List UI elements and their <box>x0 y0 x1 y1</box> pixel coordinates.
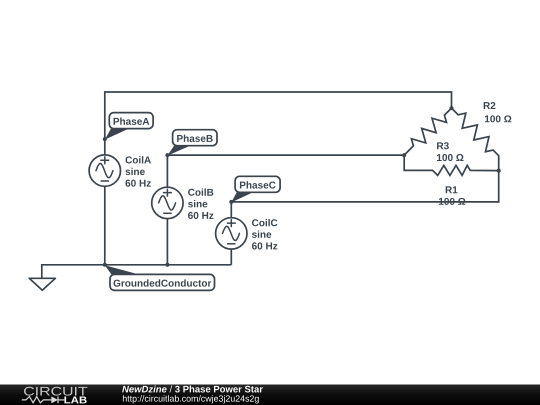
ground symbol <box>29 278 55 290</box>
net flag PhaseB box <box>173 130 217 146</box>
node PhaseC junction <box>229 200 233 204</box>
node neutral/ground junction <box>103 263 107 267</box>
net flag PhaseB text <box>177 135 213 142</box>
value label CoilC "sine 60 Hz" <box>252 219 277 250</box>
resistor R1 (bottom of delta) <box>404 155 499 175</box>
net flag PhaseA text <box>114 118 150 125</box>
node delta left junction <box>402 153 406 157</box>
net flag GroundedConductor text <box>114 279 212 286</box>
node CoilB-neutral junction <box>165 263 169 267</box>
value label CoilB "sine 60 Hz" <box>188 188 213 219</box>
value label R2 100 Ω <box>484 102 512 122</box>
footer logo text LAB <box>64 397 86 404</box>
net flag GroundedConductor pointer wedge <box>105 265 144 276</box>
resistor R3 (between PhaseB node and delta apex) <box>404 108 451 155</box>
wire CoilC bottom to neutral rail <box>230 249 232 265</box>
node delta right junction <box>497 169 501 173</box>
footer logo resistor-diode glyph <box>22 397 64 404</box>
value label R3 100 Ω <box>437 142 463 161</box>
voltage source CoilB (sine) <box>152 187 183 218</box>
net flag PhaseC box <box>235 176 280 192</box>
wire PhaseA: CoilA top up, across top, down to delta apex <box>105 92 452 155</box>
wire to ground symbol <box>42 265 105 279</box>
footer CircuitLab logo text CIRCUIT <box>24 387 87 396</box>
net flag GroundedConductor box <box>110 274 215 290</box>
net flag PhaseA box <box>109 113 153 129</box>
wire CoilA bottom to neutral rail <box>104 186 106 264</box>
net flag PhaseB pointer wedge <box>167 144 193 155</box>
voltage source CoilA (sine) <box>89 155 120 186</box>
wire CoilB bottom to neutral rail <box>166 219 168 265</box>
voltage source CoilC (sine) <box>216 218 247 249</box>
node delta apex junction <box>450 106 454 110</box>
net flag PhaseC text <box>240 181 276 188</box>
value label CoilA "sine 60 Hz" <box>125 156 150 187</box>
value label R1 100 Ω <box>439 186 465 204</box>
wire PhaseB: CoilB top up and right to delta left vertex <box>167 155 404 187</box>
net flag PhaseC pointer wedge <box>231 191 256 203</box>
net flag PhaseA pointer wedge <box>105 127 133 140</box>
resistor R2 (between delta apex and right vertex) <box>452 108 499 171</box>
footer url line <box>123 395 259 403</box>
node PhaseB junction <box>165 153 169 157</box>
wire PhaseC: CoilC top up, right, up to delta right vertex <box>231 171 498 218</box>
wire neutral rail (grounded conductor) <box>105 264 232 266</box>
footer title line <box>122 386 263 393</box>
node PhaseA junction <box>103 137 107 141</box>
